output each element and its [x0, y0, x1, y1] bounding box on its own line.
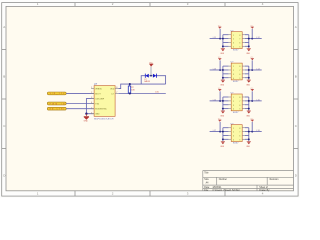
ground right U4: [247, 111, 251, 114]
wire right bus U3: [245, 66, 262, 80]
junction nodes left U4: [219, 100, 224, 110]
svg-text:2: 2: [233, 39, 234, 41]
wire left bus U5: [210, 128, 229, 142]
diode D1b: [153, 74, 157, 78]
ground GND main: [84, 114, 89, 120]
wire port P2 to U1 pin 4: [66, 103, 94, 105]
svg-text:7: 7: [239, 132, 240, 134]
U1 right pins 8,7: [115, 89, 118, 94]
svg-text:A: A: [3, 25, 5, 29]
svg-text:MCP16331T-E/CH: MCP16331T-E/CH: [94, 118, 114, 120]
svg-text:7: 7: [239, 39, 240, 41]
U3 right pins 8-5: [242, 66, 245, 78]
svg-text:2: 2: [233, 101, 234, 103]
svg-text:MODE/SYNC: MODE/SYNC: [95, 109, 107, 111]
svg-text:5: 5: [239, 78, 240, 80]
svg-text:6: 6: [239, 74, 240, 76]
svg-text:3: 3: [233, 136, 234, 138]
wire diode center tap: [149, 67, 153, 76]
svg-text:4: 4: [233, 78, 234, 80]
op-amp/regulator IC U1: [94, 86, 115, 117]
svg-text:6: 6: [239, 43, 240, 45]
power port VCC right U3: [250, 57, 254, 70]
ground right U3: [247, 80, 251, 83]
svg-text:8: 8: [239, 128, 240, 130]
svg-text:7: 7: [239, 70, 240, 72]
junction node diode center: [150, 75, 152, 77]
U4 right pins 8-5: [242, 97, 245, 109]
U3 left pins 1-4: [228, 66, 231, 78]
junction node at U1 pin 6 / ground: [85, 113, 87, 115]
U5 left pins 1-4: [228, 128, 231, 140]
svg-text:5: 5: [239, 139, 240, 141]
svg-text:Sheet of: Sheet of: [259, 186, 268, 189]
svg-text:4: 4: [233, 139, 234, 141]
svg-text:5: 5: [239, 46, 240, 48]
power port VCC above D1: [149, 63, 153, 67]
optocoupler U4: [231, 94, 242, 111]
junction nodes left U2: [219, 38, 224, 48]
svg-text:4: 4: [233, 109, 234, 111]
svg-text:1: 1: [233, 66, 234, 68]
U3 pin numbers: [233, 66, 240, 80]
wire U1 pin 7 to node L05: [118, 93, 166, 95]
ground left U2: [221, 48, 225, 51]
svg-text:Date:: Date:: [204, 186, 210, 189]
U1 left pins 1-6: [91, 89, 94, 114]
svg-text:VDD: VDD: [110, 88, 115, 90]
svg-text:EL817: EL817: [233, 143, 238, 145]
wire right bus U2: [245, 35, 262, 49]
ground right U5: [247, 141, 251, 144]
power port VCC left U3: [218, 57, 222, 70]
wire port P1 to U1 pin 2: [66, 92, 94, 94]
svg-text:3: 3: [233, 74, 234, 76]
svg-text:6: 6: [239, 105, 240, 107]
svg-text:8: 8: [239, 66, 240, 68]
junction nodes right U5: [248, 131, 253, 141]
svg-text:5: 5: [239, 109, 240, 111]
junction node R1 top: [129, 83, 131, 85]
svg-text:CS/COMP: CS/COMP: [95, 98, 105, 100]
svg-text:4: 4: [233, 46, 234, 48]
svg-text:2: 2: [233, 70, 234, 72]
svg-text:EN_CTRL: EN_CTRL: [50, 109, 65, 111]
svg-text:3: 3: [91, 97, 92, 99]
wire U1 pin 8 to top rail: [118, 84, 165, 89]
power port VCC right U5: [250, 119, 254, 132]
U5 right pins 8-5: [242, 128, 245, 140]
ground left U3: [221, 80, 225, 83]
junction nodes left U3: [219, 69, 224, 79]
svg-text:4/8/2021: 4/8/2021: [213, 187, 223, 189]
svg-text:6: 6: [239, 136, 240, 138]
U4 pin numbers: [233, 97, 240, 111]
svg-text:B: B: [295, 75, 297, 79]
svg-text:8: 8: [239, 35, 240, 37]
wire right bus U5: [245, 128, 262, 142]
power port VCC left U4: [218, 88, 222, 101]
svg-text:7: 7: [116, 92, 117, 94]
junction nodes right U4: [248, 100, 253, 110]
svg-text:Drawn By:: Drawn By:: [259, 189, 270, 192]
port P1 VIN_12V: [47, 92, 66, 95]
svg-text:GND: GND: [95, 114, 100, 116]
U1 pin names: [95, 88, 115, 115]
svg-text:4: 4: [91, 102, 92, 104]
ground left U5: [221, 141, 225, 144]
junction nodes right U2: [248, 38, 253, 48]
wire diode loop left: [141, 76, 145, 84]
svg-text:File:: File:: [204, 190, 209, 192]
port P3 EN_CTRL: [47, 107, 66, 110]
junction nodes right U3: [248, 69, 253, 79]
svg-text:5: 5: [91, 107, 92, 109]
svg-text:EL817: EL817: [233, 50, 238, 52]
optocoupler U5: [231, 125, 242, 142]
svg-text:Title: Title: [204, 171, 209, 174]
wire U1 pin 3 to ground rail: [86, 99, 94, 114]
ground right U2: [247, 48, 251, 51]
svg-text:1: 1: [233, 97, 234, 99]
power port VCC left U5: [218, 119, 222, 132]
svg-text:BAV99: BAV99: [144, 80, 149, 83]
svg-text:2: 2: [91, 92, 92, 94]
U2 pin numbers: [233, 35, 240, 49]
junction node R1 bottom: [129, 92, 131, 94]
svg-text:Revision: Revision: [270, 179, 280, 181]
svg-text:B: B: [3, 75, 5, 79]
optocoupler U2: [231, 32, 242, 49]
U5 pin numbers: [233, 128, 240, 142]
wire left bus U2: [210, 35, 229, 49]
power port VCC left U2: [218, 26, 222, 39]
svg-text:C:\Users\..\Sheet1.SchDoc: C:\Users\..\Sheet1.SchDoc: [213, 189, 241, 192]
svg-text:7: 7: [239, 101, 240, 103]
svg-text:GND: GND: [84, 120, 89, 122]
power port VCC right U2: [250, 26, 254, 39]
wire right bus U4: [245, 97, 262, 111]
svg-text:VIN_12V: VIN_12V: [50, 93, 66, 95]
svg-text:6: 6: [91, 112, 92, 114]
optocoupler U3: [231, 63, 242, 80]
svg-text:A: A: [295, 25, 297, 29]
svg-text:EL817: EL817: [233, 112, 238, 114]
svg-text:3: 3: [233, 105, 234, 107]
power port VCC right U4: [250, 88, 254, 101]
svg-text:3: 3: [233, 43, 234, 45]
svg-text:Number: Number: [219, 178, 227, 181]
svg-text:8: 8: [239, 97, 240, 99]
U4 left pins 1-4: [228, 97, 231, 109]
svg-text:Size: Size: [204, 179, 209, 181]
wire left bus U3: [210, 66, 229, 80]
svg-text:8: 8: [116, 87, 117, 89]
wire left bus U4: [210, 97, 229, 111]
U2 right pins 8-5: [242, 35, 245, 47]
svg-text:1: 1: [91, 87, 92, 89]
svg-text:1: 1: [233, 128, 234, 130]
ground left U4: [221, 111, 225, 114]
svg-text:1: 1: [233, 35, 234, 37]
U2 left pins 1-4: [228, 35, 231, 47]
wire diode loop right: [156, 76, 165, 84]
junction nodes left U5: [219, 131, 224, 141]
svg-text:BOOT: BOOT: [95, 93, 101, 95]
svg-text:TSD: TSD: [95, 103, 99, 105]
U1 pin numbers: [91, 87, 117, 114]
diode D1a: [145, 74, 149, 78]
wire port P3 to U1 pin 5: [66, 108, 94, 110]
svg-text:2: 2: [233, 132, 234, 134]
svg-text:EL817: EL817: [233, 81, 238, 83]
svg-text:VREG5: VREG5: [95, 88, 101, 90]
resistor R1: [128, 84, 130, 93]
port P2 PWM_IN: [47, 102, 66, 105]
